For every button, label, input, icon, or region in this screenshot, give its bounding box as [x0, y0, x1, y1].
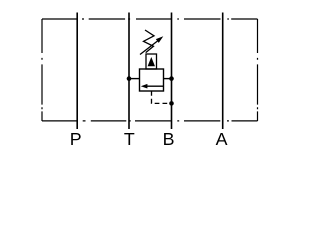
- port line T: [128, 13, 130, 130]
- poppet triangle (filled) inside seat: [148, 57, 155, 66]
- svg-text:B: B: [163, 129, 175, 149]
- port line A: [222, 13, 224, 130]
- junction on B line (pilot): [169, 101, 174, 106]
- pilot line (dashed) from valve bottom to B line: [152, 91, 172, 103]
- svg-text:T: T: [124, 129, 135, 149]
- flow arrow inside valve box (points left, closed offset position): [141, 84, 164, 89]
- manifold plate boundary (dash-dot border): [42, 19, 258, 121]
- spring seat rectangle on top of valve: [146, 54, 157, 69]
- adjustable spring zigzag: [144, 30, 155, 53]
- wire: T line to valve left port: [129, 78, 140, 80]
- relief valve V1 body box: [140, 69, 164, 91]
- junction on T line: [127, 76, 132, 81]
- wire: valve right port to B line: [164, 78, 172, 80]
- port line P: [76, 13, 78, 130]
- port line B: [171, 13, 173, 130]
- svg-text:P: P: [70, 129, 82, 149]
- junction on B line: [169, 76, 174, 81]
- svg-text:A: A: [216, 129, 228, 149]
- adjustment arrow through spring: [140, 36, 163, 54]
